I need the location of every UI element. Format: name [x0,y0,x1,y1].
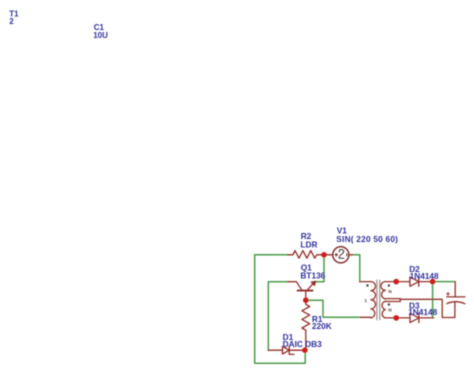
transformer secondary lower winding [382,301,400,318]
svg-text:N: N [388,308,392,314]
transistor Q1 [288,282,314,301]
junction base node [303,297,309,303]
svg-text:1N4148: 1N4148 [410,271,439,281]
transformer secondary lower phase dot [388,303,390,305]
svg-text:10U: 10U [93,31,108,40]
svg-text:SIN( 220 50 60): SIN( 220 50 60) [336,234,398,244]
capacitor plus sign [447,293,450,296]
svg-text:LDR: LDR [300,239,317,249]
junction D2 output [430,279,436,285]
junction secondary top pin [393,279,399,285]
svg-text:1N4148: 1N4148 [408,307,437,317]
capacitor polarized [447,282,465,304]
wire V1 to transformer primary top [352,255,361,282]
wire base node to transformer primary bottom [307,300,360,317]
transformer primary phase dot [366,284,368,286]
diac D1 [268,346,305,354]
svg-text:2: 2 [9,17,14,26]
diode D2 [396,277,432,286]
transformer core [377,280,380,319]
V1 sine squiggle [339,249,344,258]
voltage source V1 [324,247,352,263]
transformer primary winding [360,282,376,318]
wire center tap to capacitor bottom [400,299,455,317]
svg-text:DAIC DB3: DAIC DB3 [283,339,323,349]
Q1 emitter arrow [311,281,316,286]
wire emitter to node A [315,255,324,282]
transformer secondary upper winding [381,282,400,299]
resistor R2 [288,251,324,259]
wire D2 output down to D3 output [432,282,434,318]
transformer secondary upper phase dot [388,284,390,286]
V1 minus mark [346,254,348,256]
svg-text:1: 1 [364,298,367,304]
resistor R1 [302,300,310,350]
junction secondary bottom pin [393,315,399,321]
svg-text:BT136: BT136 [300,271,325,281]
svg-text:N: N [388,289,392,295]
wire center tap jog [399,299,401,302]
junction D1 node [302,347,308,353]
wire top to R2 [255,254,288,256]
wire inner left loop to D1 [268,282,288,351]
V1 plus sign [335,253,338,256]
svg-text:220K: 220K [312,321,332,331]
wire D2 output to capacitor top [433,281,456,283]
diode D3 [396,313,434,322]
junction node A [321,252,327,258]
wire outer left loop [255,255,306,363]
